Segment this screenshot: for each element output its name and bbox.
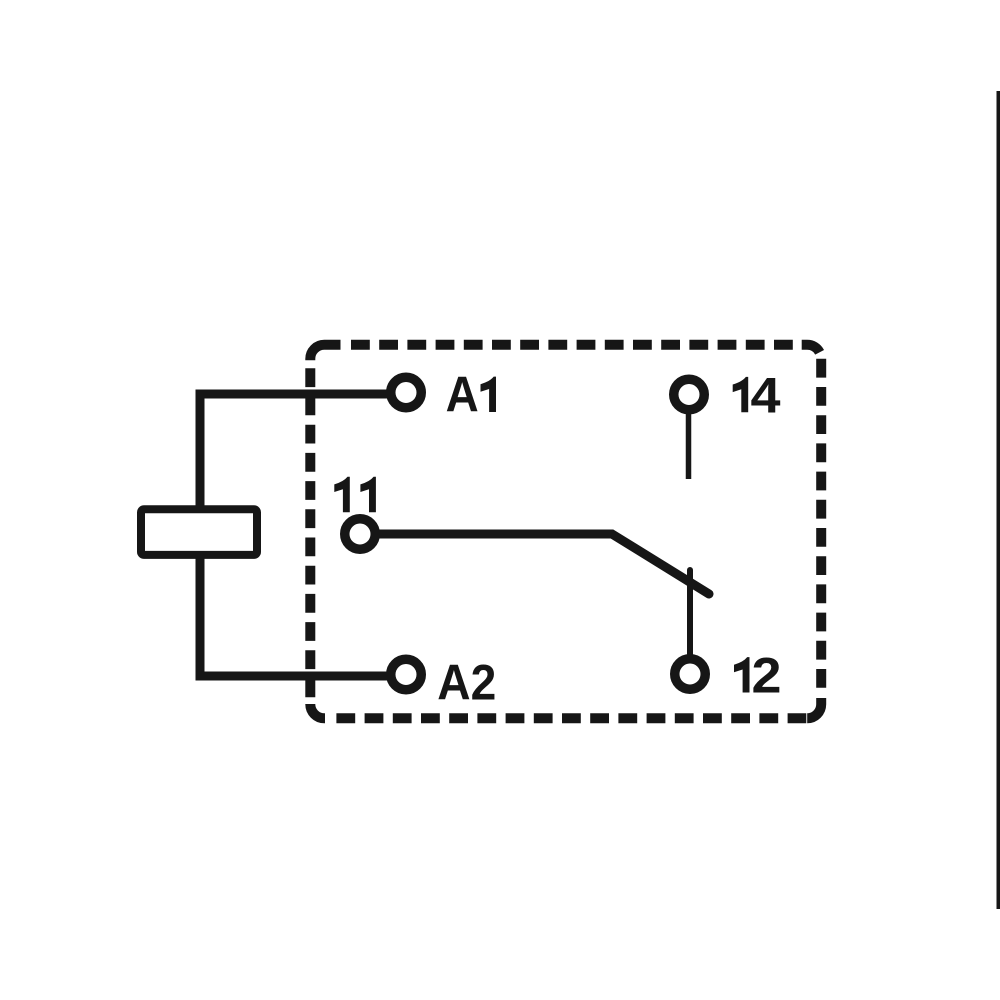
coil K1 xyxy=(141,509,257,555)
svg-text:A2: A2 xyxy=(437,655,496,711)
terminal A2 xyxy=(391,659,422,690)
svg-text:A: A xyxy=(446,367,479,423)
label 11 xyxy=(334,477,350,512)
terminal 14 xyxy=(674,379,705,410)
terminal A1 xyxy=(391,377,422,408)
relay body outline: top dashed edge xyxy=(351,340,794,350)
relay body outline: left dashed edge xyxy=(305,368,315,697)
svg-text:4: 4 xyxy=(751,367,781,423)
terminal 12 xyxy=(675,659,706,690)
relay body outline: top-right corner piece xyxy=(802,345,820,353)
svg-text:2: 2 xyxy=(752,648,782,704)
stub wire from terminal 14 xyxy=(686,412,692,479)
relay body outline: bottom-right corner elbow xyxy=(807,698,821,718)
edge of adjacent figure at right margin xyxy=(997,91,1000,909)
switch armature from terminal 11 xyxy=(374,534,709,594)
wire coil bottom to A2 xyxy=(200,552,392,676)
label 14 xyxy=(733,377,749,412)
relay body outline: top-left corner elbow xyxy=(310,345,340,361)
relay body outline: right dashed edge xyxy=(816,359,826,690)
label 12 xyxy=(734,657,750,692)
relay body outline: bottom dashed edge xyxy=(336,713,806,723)
terminal 11 xyxy=(345,519,376,550)
wire A1 to coil top xyxy=(200,394,392,510)
relay body outline: bottom-left corner elbow xyxy=(310,704,325,718)
stub wire from terminal 12 xyxy=(687,570,693,656)
